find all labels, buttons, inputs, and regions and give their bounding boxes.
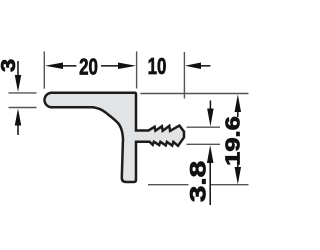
extension line: bottom of profile, to right (y=184.7) [148, 184, 189, 186]
extension line: "20" left (x=44.3) [43, 51, 45, 88]
dim arrow: "10" right outside [185, 63, 211, 70]
svg-text:19.6: 19.6 [221, 116, 244, 166]
extension line: top of profile, to right (y=93.5) [140, 93, 248, 95]
dim arrow: "19.6" top (pointing up) [235, 94, 242, 117]
dim arrow: "3" bottom (pointing up) [15, 109, 22, 136]
svg-text:10: 10 [148, 53, 167, 79]
dim arrow: "19.6" bottom (pointing down) [235, 159, 242, 185]
svg-text:3.8: 3.8 [185, 161, 211, 202]
extension line: "10" right (x=184.4) [183, 52, 185, 99]
dim arrow: "3" top (pointing down) [15, 61, 22, 92]
extension dash: "3" top (y=92.9) [9, 92, 37, 94]
dim arrow: "20" right [101, 63, 136, 70]
extension line: "20"/"10" shared (x=136.6) [136, 51, 138, 88]
svg-text:20: 20 [79, 54, 98, 80]
extension dash: "3" bottom (y=107.5) [9, 107, 37, 109]
profile body (L-shaped shelf profile with barbed plug) [45, 93, 185, 182]
extension dash: "3.8" bottom (y=144.3) [187, 143, 221, 145]
dim arrow: "3.8" top (pointing down) [207, 101, 214, 127]
svg-text:3: 3 [0, 59, 20, 72]
extension dash: "3.8" top (y=127.2) [187, 126, 221, 128]
dim arrow: "3.8" bottom (pointing up) [207, 145, 214, 205]
dim arrow: "20" left [45, 63, 77, 70]
